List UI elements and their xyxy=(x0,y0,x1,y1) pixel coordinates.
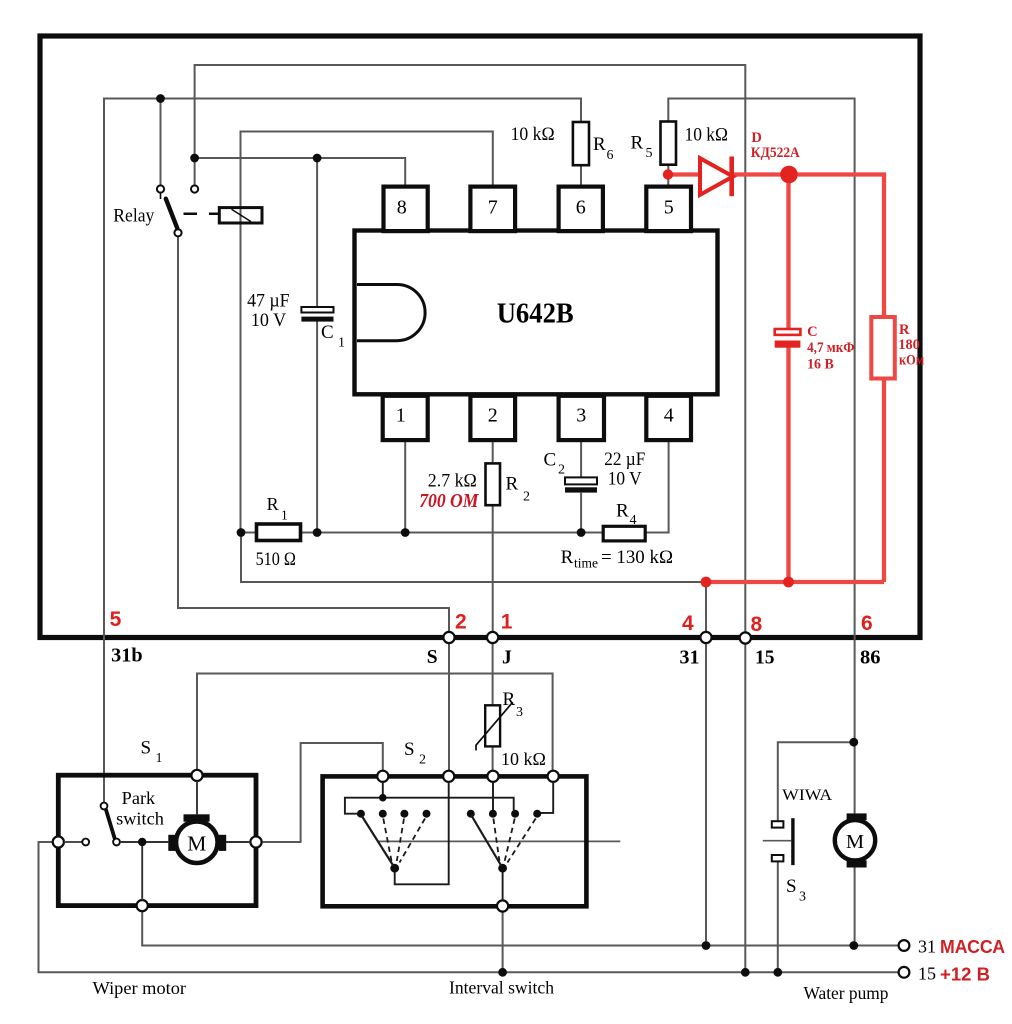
terminal 15 +12V xyxy=(899,967,910,978)
terminal label 31 MACCA xyxy=(918,937,1005,958)
svg-text:Relay: Relay xyxy=(113,206,154,227)
svg-text:1: 1 xyxy=(281,508,288,523)
wire: pin 7 riser to y=131.5 rail across to relay coil down to R1 rail xyxy=(241,132,493,533)
svg-text:5: 5 xyxy=(664,197,674,219)
wire: pin 8 riser to y=158 rail across to relay branch x=194.6 xyxy=(195,158,406,187)
svg-text:510 Ω: 510 Ω xyxy=(256,549,296,570)
wire: S1 left terminal to left rail x=38.5 down to +12V line to terminal 15 xyxy=(39,842,899,972)
S2 left wiper xyxy=(362,816,426,867)
svg-text:M: M xyxy=(846,831,864,853)
relay contact B xyxy=(191,185,198,192)
resistor R5 xyxy=(661,122,677,165)
svg-text:R: R xyxy=(503,689,516,710)
wire: red diode output rail xyxy=(668,175,884,583)
svg-text:2: 2 xyxy=(419,753,426,768)
value R 180 кОм (red) xyxy=(898,322,924,369)
svg-text:15: 15 xyxy=(918,964,936,984)
svg-text:10 kΩ: 10 kΩ xyxy=(685,125,729,146)
resistor R4 xyxy=(603,526,645,541)
svg-text:S: S xyxy=(427,647,438,668)
svg-text:R: R xyxy=(899,322,910,338)
S2 terminal 4 xyxy=(548,771,559,782)
S2 right wiper xyxy=(471,816,535,867)
svg-text:МАССА: МАССА xyxy=(940,937,1005,957)
junction: red capacitor on bottom rail xyxy=(783,577,794,588)
wire: S3 actuator line xyxy=(763,840,791,842)
park switch moving contact xyxy=(113,839,120,846)
relay lever xyxy=(161,193,178,229)
S2 left bank contacts xyxy=(357,810,431,873)
wiper motor M xyxy=(168,814,226,863)
S2 terminal 2 xyxy=(443,771,454,782)
pin 6 xyxy=(559,187,603,232)
svg-text:5: 5 xyxy=(646,146,653,161)
pin 5 xyxy=(646,187,691,232)
svg-text:S: S xyxy=(141,738,152,759)
value 22uF 10V for C2 xyxy=(604,450,645,489)
svg-text:R: R xyxy=(631,133,644,154)
label C2 xyxy=(544,450,566,478)
value C 4,7 мкФ 16 В (red) xyxy=(807,324,855,373)
label R5 xyxy=(631,133,653,162)
label R2 xyxy=(506,474,531,505)
S2 terminal 3 xyxy=(487,771,498,782)
wire: S2 wiper actuator line xyxy=(379,840,621,842)
junction: S2 terminal 1 branch xyxy=(379,794,387,802)
pin 8 xyxy=(384,187,428,232)
svg-text:4: 4 xyxy=(664,405,674,427)
svg-text:8: 8 xyxy=(751,613,763,636)
pin 7 xyxy=(470,187,515,232)
pin 1 xyxy=(383,396,428,440)
value Rtime = 130 kΩ xyxy=(561,547,673,571)
IC U642B body xyxy=(355,231,718,395)
svg-text:1: 1 xyxy=(501,611,513,634)
svg-text:2: 2 xyxy=(523,490,530,505)
node 15 on enclosure border xyxy=(740,632,751,643)
junction: red rail on ground leg xyxy=(701,577,712,588)
label D КД522А (red) xyxy=(751,130,800,161)
svg-text:U642B: U642B xyxy=(497,299,574,330)
svg-text:1: 1 xyxy=(338,336,345,351)
wire: S2 bottom terminal down to +12V line xyxy=(502,912,504,973)
label C1 xyxy=(321,322,345,351)
wire: R5 bottom stub to pin 5 xyxy=(667,165,669,187)
svg-text:4: 4 xyxy=(630,513,637,528)
relay coil xyxy=(219,208,262,223)
svg-text:R: R xyxy=(593,134,606,155)
park switch fixed contact wire xyxy=(64,841,82,843)
svg-text:R: R xyxy=(506,474,519,495)
IC orientation notch xyxy=(357,285,425,341)
svg-text:3: 3 xyxy=(516,705,523,720)
svg-text:S: S xyxy=(786,876,797,897)
svg-text:22 µF: 22 µF xyxy=(604,450,645,470)
node J on enclosure border xyxy=(487,632,498,643)
svg-text:Wiper motor: Wiper motor xyxy=(93,978,187,998)
wire: pin 2 riser through R2 down to node J, R3, interval switch xyxy=(492,440,494,771)
wiper motor box S1 xyxy=(58,775,256,905)
wire: relay contact B up to top rail y=65 across to x=745 down to node 15 and +12V line xyxy=(195,65,746,972)
svg-text:S: S xyxy=(404,739,415,760)
node 31 on enclosure border xyxy=(700,632,711,643)
wire: park switch to wiper motor xyxy=(120,842,168,900)
svg-text:3: 3 xyxy=(576,405,586,427)
svg-text:31: 31 xyxy=(680,648,700,669)
S2 bottom terminal xyxy=(497,900,508,911)
svg-text:R: R xyxy=(616,501,629,522)
svg-text:C: C xyxy=(807,324,817,340)
junction in S1 xyxy=(138,838,146,846)
pin 4 xyxy=(646,396,691,440)
svg-text:1: 1 xyxy=(156,751,163,766)
junction: pin8 rail on x=194.6 xyxy=(190,154,199,163)
wire: S1 bottom to MACCA line to terminal 31 xyxy=(142,911,899,945)
svg-text:6: 6 xyxy=(576,197,586,219)
capacitor C 4,7uF (red) xyxy=(775,329,801,348)
enclosure border (control unit box) xyxy=(40,36,920,638)
svg-text:WIWA: WIWA xyxy=(782,787,832,804)
relay contact C xyxy=(174,229,181,236)
wire: S1 top terminal to motor xyxy=(196,781,198,814)
svg-text:31: 31 xyxy=(918,937,936,957)
svg-text:2: 2 xyxy=(558,463,565,478)
label Park switch xyxy=(116,788,164,828)
resistor R6 xyxy=(573,122,589,165)
park switch fixed contact xyxy=(82,839,89,846)
junction: R5/diode anode xyxy=(663,169,673,179)
S1 terminal left xyxy=(53,836,64,847)
water pump motor M xyxy=(835,813,875,867)
wire: relay contact A stub from y=98.5 rail xyxy=(160,99,162,186)
wire: washer switch S3 branch xyxy=(778,742,854,972)
wire: left rail x=104 from park-switch pivot up to y=98.5 across to R6 riser into pin 6 xyxy=(104,99,581,803)
label S1 xyxy=(141,738,163,767)
pin 3 xyxy=(559,396,604,440)
svg-text:Water pump: Water pump xyxy=(804,983,889,1003)
svg-text:= 130 kΩ: = 130 kΩ xyxy=(601,547,673,568)
svg-text:6: 6 xyxy=(607,148,614,163)
S2 internal wiring xyxy=(345,782,553,900)
svg-text:J: J xyxy=(502,648,512,669)
svg-text:2.7 kΩ: 2.7 kΩ xyxy=(428,471,477,492)
svg-text:+12 В: +12 В xyxy=(940,964,990,984)
park switch lever xyxy=(106,810,115,838)
junction: x706 on MACCA line xyxy=(702,941,711,950)
svg-text:3: 3 xyxy=(799,890,806,905)
svg-text:31b: 31b xyxy=(111,646,143,667)
svg-text:switch: switch xyxy=(116,808,164,828)
wire: relay switched output down, across y=608 to node S, down to S2 xyxy=(178,237,449,771)
svg-text:10 kΩ: 10 kΩ xyxy=(501,749,546,769)
svg-text:4,7 мкФ: 4,7 мкФ xyxy=(807,340,855,356)
junction: coil on R1 rail xyxy=(237,528,246,537)
junction: C2 riser on R1 rail xyxy=(577,528,586,537)
wire: red bottom rail to node 31 leg xyxy=(706,580,884,584)
svg-text:Interval switch: Interval switch xyxy=(449,978,554,998)
svg-text:86: 86 xyxy=(860,648,881,669)
label S3 xyxy=(786,876,806,905)
junction: C1 on R1 rail xyxy=(313,528,322,537)
svg-text:M: M xyxy=(187,831,206,855)
svg-text:47 µF: 47 µF xyxy=(247,291,290,311)
junction: water pump branch xyxy=(849,738,858,747)
interval switch box S2 xyxy=(323,776,587,906)
wire: S1 top to y=673.5 rail across to S2 terminal 4 xyxy=(197,674,553,771)
node S on enclosure border xyxy=(443,632,454,643)
S2 terminal 1 xyxy=(377,771,388,782)
svg-text:15: 15 xyxy=(755,648,775,669)
svg-text:10 V: 10 V xyxy=(251,311,287,331)
svg-text:R: R xyxy=(561,547,574,568)
svg-text:time: time xyxy=(574,556,598,571)
junction: C1 riser on y=158 rail xyxy=(313,154,322,163)
svg-text:2: 2 xyxy=(455,611,467,634)
terminal 31 MACCA xyxy=(899,940,910,951)
junction: S2 on +12V line xyxy=(498,968,507,977)
junction: relay A on y=98.5 rail xyxy=(156,94,165,103)
svg-text:700 OM: 700 OM xyxy=(419,490,479,512)
label R3 xyxy=(503,689,524,720)
wire: R1/R4 rail y=532.5 with risers to pins 1,3,4 and C2 xyxy=(241,440,669,532)
park switch pivot xyxy=(101,803,108,810)
svg-text:16 В: 16 В xyxy=(807,357,834,373)
svg-text:5: 5 xyxy=(110,608,122,631)
label R1 xyxy=(267,494,288,523)
junction: pin1 riser on R1 rail xyxy=(401,528,410,537)
svg-text:10 V: 10 V xyxy=(608,469,643,489)
capacitor C1 xyxy=(301,307,333,322)
svg-text:4: 4 xyxy=(682,612,694,635)
svg-text:D: D xyxy=(751,130,761,146)
svg-text:кОм: кОм xyxy=(899,353,924,369)
wire: R5 top rail y=98.5 across to x=854.6 down to water pump xyxy=(668,99,854,946)
value 47uF 10V for C1 xyxy=(247,291,290,331)
resistor R2 xyxy=(486,463,501,505)
junction: diode cathode node xyxy=(780,166,798,184)
washer switch S3 xyxy=(772,818,793,865)
capacitor C2 xyxy=(565,477,597,492)
junction: pump on MACCA line xyxy=(849,941,858,950)
wire: red capacitor riser xyxy=(786,175,790,583)
svg-text:8: 8 xyxy=(397,197,407,219)
svg-text:180: 180 xyxy=(898,337,919,353)
label R6 xyxy=(593,134,614,163)
relay actuating dashed link xyxy=(184,213,219,216)
junction: S3 on +12V line xyxy=(773,968,782,977)
wire: motor to S1 right terminal xyxy=(226,841,250,843)
svg-text:1: 1 xyxy=(396,405,406,427)
svg-text:10 kΩ: 10 kΩ xyxy=(511,124,555,145)
svg-text:R: R xyxy=(267,494,279,514)
terminal label 15 +12V xyxy=(918,964,990,985)
diode D КД522А xyxy=(700,157,733,197)
svg-text:C: C xyxy=(544,450,557,471)
label S2 xyxy=(404,739,426,768)
svg-text:6: 6 xyxy=(861,612,873,635)
junction: node15 wire on +12V line xyxy=(741,968,750,977)
S2 right bank contacts xyxy=(467,810,541,873)
rheostat R3 xyxy=(476,702,513,750)
S1 terminal top xyxy=(191,770,202,781)
svg-text:C: C xyxy=(321,322,334,343)
pin 2 xyxy=(470,396,515,440)
resistor R 180k (red) xyxy=(871,317,895,379)
label R4 xyxy=(616,501,637,529)
resistor R1 xyxy=(257,524,301,541)
S1 terminal right xyxy=(250,836,261,847)
relay contact A xyxy=(157,185,164,192)
svg-text:КД522А: КД522А xyxy=(751,145,800,161)
S1 terminal bottom xyxy=(137,900,148,911)
wire: C1 riser x=317 xyxy=(316,158,318,533)
wire: ground leg from R1 rail down y=582 to node 31 and MACCA line xyxy=(241,533,706,946)
svg-text:7: 7 xyxy=(488,197,498,219)
svg-text:2: 2 xyxy=(488,405,498,427)
svg-text:Park: Park xyxy=(122,788,156,808)
wire: S1 right terminal up over to S2 terminal 1 xyxy=(262,743,383,842)
